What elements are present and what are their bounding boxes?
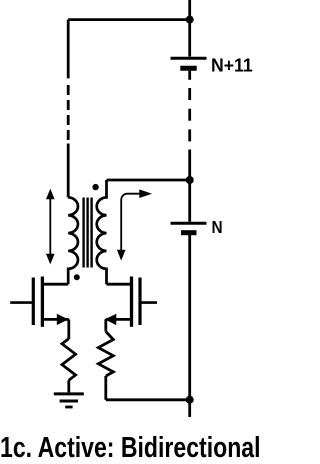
caption 1c. Active: Bidirectional <box>0 432 261 464</box>
node bottom-right junction <box>186 396 194 404</box>
transistor Q1 channel bar <box>41 277 44 327</box>
resistor R2 <box>98 332 113 377</box>
ground <box>54 394 84 407</box>
wire right rail bottom stub <box>188 400 191 417</box>
wire transformer secondary top to right rail <box>107 179 190 182</box>
transistor Q2 drain wire <box>107 283 132 286</box>
wire below battery N+11 <box>188 71 191 80</box>
transistor Q2 gate lead <box>140 301 157 304</box>
wire Q1 source down to R1 <box>67 319 70 339</box>
wire left rail solid top <box>67 20 70 79</box>
battery B2 N short plate <box>181 230 197 235</box>
transformer T1 secondary (right winding) <box>97 180 107 284</box>
wire right rail dashed segment <box>188 88 191 141</box>
transistor Q1 drain wire <box>42 283 68 286</box>
wire left rail to transformer <box>67 144 70 198</box>
transistor Q1 source wire with arrow <box>42 314 68 325</box>
transistor Q2 channel bar <box>130 277 133 327</box>
wire right rail top segment <box>188 0 191 57</box>
wire R2 to bottom-right junction <box>106 398 190 401</box>
transformer T1 primary (left winding) <box>68 197 78 284</box>
battery B1 N+11 short plate <box>180 66 196 71</box>
battery B1 N+11 long plate <box>171 57 207 60</box>
transistor Q1 gate lead <box>10 301 33 304</box>
transistor Q2 gate bar <box>138 278 141 326</box>
node right-rail junction at transformer feed <box>186 176 194 184</box>
wire right rail middle segment <box>188 150 191 222</box>
label N <box>212 218 223 237</box>
svg-text:N+11: N+11 <box>211 55 253 75</box>
node top-right junction <box>186 16 194 24</box>
transistor Q1 gate bar <box>32 278 35 326</box>
transformer core lines <box>84 198 92 268</box>
svg-text:N: N <box>212 218 223 237</box>
wire left rail dashed segment <box>67 85 70 140</box>
battery B2 N long plate <box>171 222 207 225</box>
wire R2 down <box>104 376 107 400</box>
resistor R1 <box>62 339 76 381</box>
bidirectional arrow left of transformer <box>46 189 55 265</box>
phase dot bottom (primary) <box>74 274 80 280</box>
wire top horizontal <box>68 18 190 21</box>
phase dot top (secondary) <box>92 184 98 190</box>
elbow arrow (right then down) <box>117 189 152 260</box>
transistor Q2 source wire with arrow <box>105 314 132 325</box>
wire Q2 source down to R2 <box>104 319 107 331</box>
label N+11 <box>211 55 253 75</box>
wire R1 to ground <box>67 380 70 392</box>
wire right rail lower segment <box>188 235 191 400</box>
